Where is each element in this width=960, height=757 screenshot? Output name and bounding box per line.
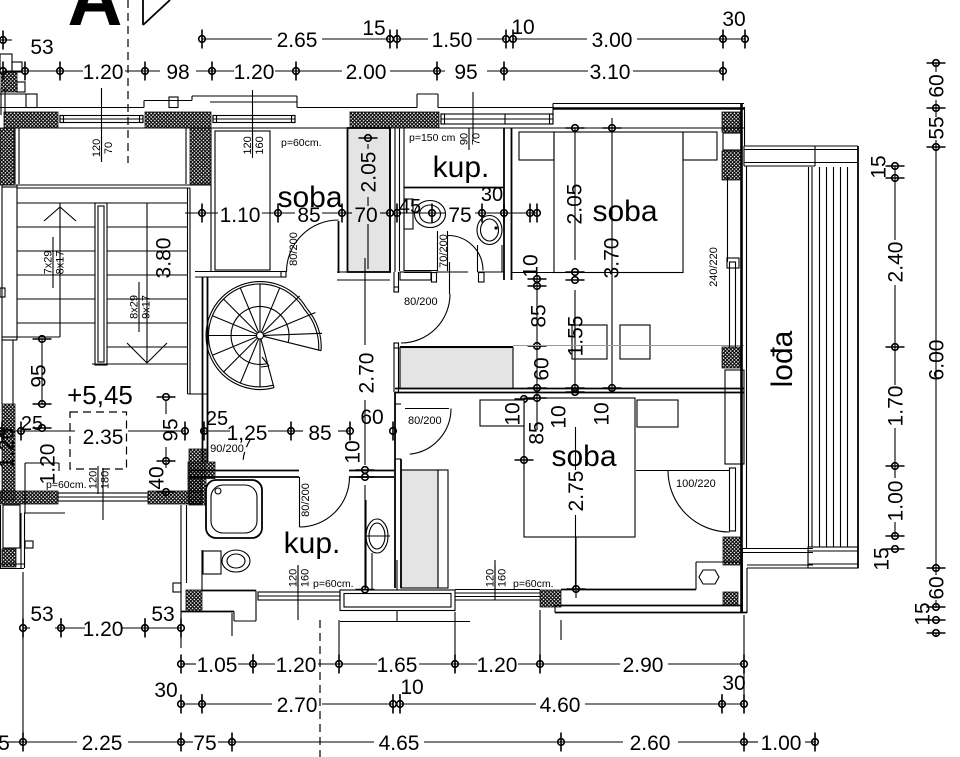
svg-text:30: 30 [722,8,745,31]
svg-text:kup.: kup. [433,151,490,184]
svg-text:70/200: 70/200 [438,234,450,268]
svg-text:3.10: 3.10 [590,61,631,84]
svg-text:53: 53 [30,36,53,59]
svg-text:25: 25 [21,413,43,435]
svg-text:180: 180 [100,471,112,489]
svg-text:1.00: 1.00 [885,481,908,522]
svg-text:2.25: 2.25 [82,732,123,755]
svg-text:53: 53 [30,603,53,626]
svg-text:95: 95 [28,364,51,387]
svg-text:80/200: 80/200 [404,296,438,308]
svg-text:60: 60 [926,74,949,97]
svg-text:1.20: 1.20 [234,61,275,84]
svg-text:1.10: 1.10 [220,204,261,227]
svg-text:85: 85 [526,421,549,444]
svg-text:lođa: lođa [766,330,799,387]
svg-text:p=60cm.: p=60cm. [313,578,354,590]
svg-text:1.20: 1.20 [83,618,124,641]
svg-text:60: 60 [926,576,949,599]
svg-text:10: 10 [511,16,534,39]
svg-text:70: 70 [103,142,115,154]
svg-text:1.20: 1.20 [477,654,518,677]
svg-text:40: 40 [146,466,169,489]
svg-text:1.20: 1.20 [83,61,124,84]
svg-text:9x17: 9x17 [141,295,153,319]
svg-text:30: 30 [154,679,177,702]
svg-text:15: 15 [362,17,385,40]
svg-text:70: 70 [471,133,483,145]
svg-text:kup.: kup. [284,527,341,560]
svg-text:p=60cm.: p=60cm. [513,578,554,590]
svg-text:soba: soba [592,195,657,228]
svg-text:2.40: 2.40 [885,242,908,283]
svg-text:2.05: 2.05 [564,184,587,225]
svg-text:10: 10 [400,676,423,699]
svg-text:1.70: 1.70 [885,386,908,427]
svg-text:100/220: 100/220 [676,478,716,490]
svg-text:4.60: 4.60 [540,694,581,717]
svg-text:p=150 cm: p=150 cm [409,132,456,144]
svg-text:25: 25 [206,408,228,430]
svg-text:2.90: 2.90 [623,654,664,677]
svg-text:1.20: 1.20 [276,654,317,677]
svg-text:soba: soba [277,181,342,214]
svg-text:2.05: 2.05 [358,152,381,193]
svg-text:2.00: 2.00 [346,61,387,84]
svg-text:160: 160 [497,569,509,587]
svg-text:+5,45: +5,45 [67,380,133,410]
svg-text:15: 15 [912,602,935,625]
svg-text:85: 85 [308,422,331,445]
svg-text:60: 60 [360,406,383,429]
svg-text:10: 10 [342,440,365,463]
svg-text:75: 75 [448,204,471,227]
svg-text:2.75: 2.75 [565,471,588,512]
svg-text:p=60cm.: p=60cm. [46,479,87,491]
svg-text:3.80: 3.80 [153,238,176,279]
svg-text:10: 10 [591,402,614,425]
svg-text:6.00: 6.00 [926,340,949,381]
svg-text:1.05: 1.05 [197,654,238,677]
svg-text:2.35: 2.35 [83,426,124,449]
svg-text:53: 53 [151,603,174,626]
svg-text:240/220: 240/220 [708,247,720,287]
svg-text:soba: soba [551,440,616,473]
svg-text:A: A [68,0,123,42]
svg-text:2.60: 2.60 [630,732,671,755]
svg-text:p=60cm.: p=60cm. [281,137,322,149]
svg-text:160: 160 [300,569,312,587]
svg-text:15: 15 [868,155,891,178]
svg-text:80/200: 80/200 [300,483,312,517]
svg-text:1.55: 1.55 [565,316,588,357]
svg-text:80/200: 80/200 [288,232,300,266]
svg-text:2.65: 2.65 [277,29,318,52]
svg-text:95: 95 [160,418,183,441]
svg-text:75: 75 [193,732,216,755]
svg-text:8x17: 8x17 [55,251,67,275]
svg-text:30: 30 [722,672,745,695]
svg-text:2.70: 2.70 [277,694,318,717]
svg-text:1,25: 1,25 [227,422,268,445]
svg-text:98: 98 [166,61,189,84]
svg-text:55: 55 [926,116,949,139]
svg-text:1.00: 1.00 [761,732,802,755]
svg-text:3.00: 3.00 [592,29,633,52]
svg-text:60: 60 [531,357,554,380]
svg-text:95: 95 [454,61,477,84]
svg-text:10: 10 [502,402,525,425]
svg-text:85: 85 [528,304,551,327]
svg-text:4.65: 4.65 [379,732,420,755]
svg-text:10: 10 [548,405,571,428]
svg-text:70: 70 [354,204,377,227]
svg-text:160: 160 [254,136,266,154]
svg-text:5: 5 [0,732,10,755]
svg-text:1.50: 1.50 [432,29,473,52]
svg-text:2.70: 2.70 [356,353,379,394]
svg-text:80/200: 80/200 [408,415,442,427]
svg-text:10: 10 [520,254,543,277]
svg-text:90/200: 90/200 [210,443,244,455]
svg-text:1.65: 1.65 [377,654,418,677]
svg-text:15: 15 [871,547,894,570]
